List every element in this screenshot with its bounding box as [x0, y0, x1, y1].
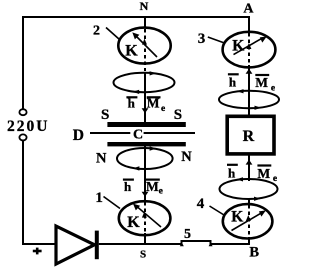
wire meter1 to bottom: [144, 233, 146, 245]
wire N branch top: [144, 16, 146, 29]
coil loop L3: [219, 91, 279, 108]
svg-text:K: K: [232, 38, 244, 55]
coil L2 arrow left: [133, 166, 140, 170]
svg-text:2: 2: [93, 23, 100, 38]
coil loop L1: [114, 73, 175, 92]
field arrow down A1: [142, 108, 149, 113]
galvanometer U1 center arrow: [142, 212, 147, 218]
wire bottom right: [211, 243, 251, 245]
overbar h A3: [228, 73, 239, 75]
field arrow down A2: [142, 192, 149, 197]
coil L2 arrow right: [150, 146, 157, 150]
galvanometer U2 dashed axis: [144, 29, 146, 71]
terminal lower circle: [19, 134, 26, 140]
coil L4 arrow left: [236, 177, 243, 181]
coil L1 arrow right: [150, 71, 157, 75]
svg-text:h: h: [229, 74, 237, 89]
coil L4 arrow right: [254, 197, 261, 201]
coil L3 arrow left: [237, 89, 244, 93]
galvanometer U4 ellipse: [223, 204, 273, 238]
galvanometer U1 ellipse: [119, 201, 171, 235]
svg-text:N: N: [181, 149, 192, 165]
wire left vertical lower: [22, 140, 24, 245]
callout line 4: [210, 206, 225, 215]
svg-text:M: M: [146, 179, 159, 194]
svg-text:R: R: [243, 128, 255, 145]
wire L2 to meter1: [144, 146, 146, 200]
svg-text:D: D: [73, 127, 84, 144]
wire through L1 to capacitor: [144, 72, 146, 123]
wire L3 to R: [248, 92, 250, 116]
dielectric line D: [90, 132, 130, 134]
svg-text:C: C: [133, 127, 143, 142]
svg-text:B: B: [249, 244, 259, 260]
capacitor top plate: [107, 122, 185, 127]
label +: [33, 250, 42, 253]
wire bottom left to diode: [22, 243, 56, 245]
svg-text:N: N: [140, 0, 149, 13]
wire U3 to L3: [248, 65, 250, 92]
svg-text:5: 5: [184, 227, 191, 242]
overbar h A4: [227, 164, 238, 166]
galvanometer U3 dashed axis: [248, 33, 250, 67]
overbar M A2: [146, 179, 160, 181]
svg-text:S: S: [140, 249, 146, 261]
galvanometer U2 needle: [136, 36, 158, 58]
galvanometer U2 needle arrowhead: [132, 32, 139, 39]
svg-text:K: K: [231, 209, 243, 226]
callout line 2: [106, 28, 120, 40]
svg-text:e: e: [271, 83, 275, 93]
switch 5 bracket: [182, 241, 211, 245]
svg-text:4: 4: [197, 196, 205, 212]
wire U4 to bottom: [248, 237, 250, 245]
diode cathode bar: [95, 231, 99, 260]
galvanometer U3 center arrow: [246, 43, 251, 49]
svg-text:A: A: [243, 2, 254, 17]
galvanometer U1 dashed axis: [144, 202, 146, 241]
coil loop L2: [117, 148, 173, 169]
galvanometer U4 needle arrowhead: [259, 210, 266, 216]
wire A branch top: [248, 16, 250, 32]
wire top horizontal N-A: [22, 16, 250, 18]
svg-text:e: e: [161, 104, 165, 114]
galvanometer U1 needle arrowhead: [133, 204, 140, 211]
galvanometer U4 dashed axis: [248, 205, 250, 241]
overbar h A1: [126, 96, 137, 98]
switch left hook: [180, 242, 184, 246]
wire bottom center: [99, 243, 183, 245]
callout line 3: [208, 37, 224, 43]
field arrow up A4: [246, 160, 253, 165]
svg-text:N: N: [96, 150, 107, 166]
field arrow up A3: [246, 69, 253, 74]
wire L4 to U4: [248, 198, 250, 205]
galvanometer U3 needle arrowhead: [260, 36, 267, 42]
svg-text:M: M: [255, 75, 268, 90]
svg-text:1: 1: [95, 190, 103, 206]
overbar h A2: [123, 179, 134, 181]
svg-text:220U: 220U: [7, 118, 49, 135]
svg-text:h: h: [124, 179, 132, 194]
galvanometer U1 needle: [137, 206, 162, 227]
svg-text:K: K: [125, 43, 138, 60]
switch right hook: [209, 242, 213, 246]
diode D triangle: [56, 226, 95, 264]
galvanometer U3 needle: [234, 38, 263, 55]
resistor box R: [227, 116, 274, 154]
overbar M A4: [257, 164, 271, 166]
wire R to L4: [248, 155, 250, 181]
terminal upper circle: [19, 109, 26, 115]
galvanometer U2 center arrow: [142, 39, 147, 45]
svg-text:e: e: [159, 187, 163, 197]
dielectric line right segment: [144, 132, 195, 134]
galvanometer U2 ellipse: [118, 28, 170, 64]
galvanometer U3 ellipse: [223, 32, 276, 68]
svg-text:h: h: [228, 165, 236, 180]
coil loop L4: [220, 179, 278, 199]
svg-text:3: 3: [198, 31, 206, 47]
coil L3 arrow right: [255, 106, 262, 110]
svg-text:e: e: [273, 174, 277, 184]
callout line 1: [104, 197, 121, 209]
galvanometer U4 center arrow: [246, 215, 251, 221]
svg-text:S: S: [174, 107, 182, 123]
galvanometer U4 needle: [232, 213, 263, 231]
coil L1 arrow left: [132, 90, 139, 94]
overbar M A3: [255, 74, 269, 76]
svg-text:K: K: [127, 214, 140, 231]
capacitor bottom plate: [107, 142, 185, 146]
svg-text:S: S: [101, 107, 109, 123]
wire left vertical upper: [22, 16, 24, 110]
overbar M A1: [147, 96, 161, 98]
